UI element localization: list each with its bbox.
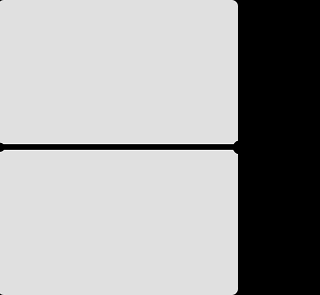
node B (right terminal dot) bbox=[233, 140, 247, 154]
node A (left terminal dot) bbox=[0, 143, 5, 152]
wire bbox=[0, 140, 248, 156]
